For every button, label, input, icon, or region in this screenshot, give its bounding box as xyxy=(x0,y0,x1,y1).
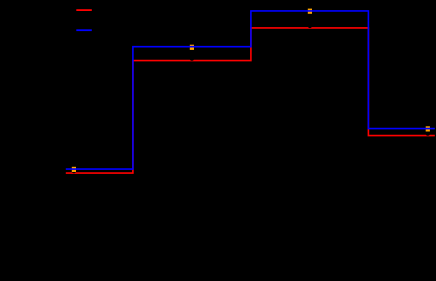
legend red line sample xyxy=(76,9,92,11)
black data marker bin3 xyxy=(308,24,312,28)
blue histogram step line xyxy=(66,11,435,169)
red histogram step line xyxy=(66,28,435,173)
orange errorbar bin3 xyxy=(308,9,312,14)
black data marker bin4 xyxy=(426,131,430,135)
black data marker bin2 xyxy=(190,56,194,60)
orange errorbar bin2 xyxy=(190,45,194,50)
orange errorbar bin4 xyxy=(426,126,430,131)
orange errorbar bin1 xyxy=(72,167,76,172)
black data marker bin1 xyxy=(72,169,76,173)
legend blue line sample xyxy=(76,29,92,31)
